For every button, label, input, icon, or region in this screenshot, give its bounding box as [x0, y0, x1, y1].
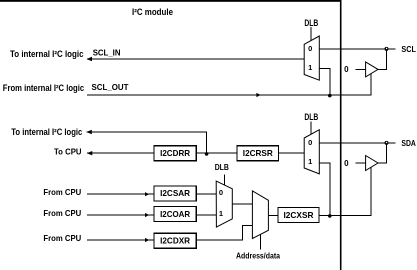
svg-text:1: 1 — [308, 157, 312, 166]
wire: buffer U2 output to SCL pin — [378, 49, 387, 69]
svg-text:0: 0 — [308, 44, 312, 53]
register I2CSAR — [154, 186, 196, 201]
wire: DLB select tick into mux U3 — [310, 122, 312, 135]
wire: I2CRSR to mux U3 output — [279, 152, 305, 154]
svg-text:Address/data: Address/data — [236, 251, 280, 260]
wire: mux U6 output to I2CXSR — [268, 214, 278, 216]
module boundary right edge — [340, 0, 342, 270]
wire: mux U5 output to mux U6 input — [232, 203, 252, 205]
wire: DLB select tick into mux U1 — [310, 27, 312, 40]
svg-text:DLB: DLB — [215, 162, 229, 172]
svg-text:0: 0 — [344, 159, 349, 168]
wire: I2COAR to mux U5 input 1 — [196, 214, 217, 216]
mux U6 (address/data mux) — [252, 191, 268, 239]
node: SCL pin terminal — [385, 47, 389, 51]
wire: CPU to I2CDXR (right arrowhead) — [87, 238, 154, 242]
register I2CDRR — [154, 146, 196, 161]
svg-text:1: 1 — [219, 209, 223, 218]
svg-text:I2CDRR: I2CDRR — [160, 148, 190, 158]
svg-text:I2CSAR: I2CSAR — [160, 188, 190, 198]
node: junction SCL_OUT / loopback — [328, 94, 332, 98]
svg-text:I2COAR: I2COAR — [160, 209, 190, 219]
svg-text:DLB: DLB — [304, 18, 318, 28]
svg-text:SDA: SDA — [401, 138, 416, 148]
node: junction SDA_IN / I2CDRR-I2CRSR — [205, 152, 209, 156]
wire: I2CDXR to mux U6 input (L bend) — [196, 226, 252, 240]
wire: buffer U4 enable from I2CXSR output — [370, 167, 372, 215]
svg-text:SCL_IN: SCL_IN — [93, 48, 121, 58]
node: SDA pin terminal — [385, 141, 389, 145]
wire: CPU to I2COAR (right arrowhead) — [87, 213, 154, 217]
wire SCL_OUT (internal logic to buffer enable, mid arrowhead) — [87, 93, 372, 97]
svg-text:To CPU: To CPU — [54, 147, 82, 157]
svg-text:I2CRSR: I2CRSR — [243, 148, 273, 158]
svg-text:To internal I²C logic: To internal I²C logic — [10, 49, 84, 59]
wire: mux U1 input 1 stub to loopback vertical — [319, 68, 330, 95]
svg-text:0: 0 — [344, 65, 349, 74]
svg-text:I2CDXR: I2CDXR — [160, 236, 190, 246]
wire: SCL pin to mux U1 input 0 — [319, 48, 395, 50]
wire: DLB select tick into mux U5 — [223, 175, 225, 186]
mux U3 (SDA DLB mux) — [304, 130, 319, 174]
wire: CPU to I2CSAR (right arrowhead) — [87, 192, 154, 196]
wire: SCL_OUT up to buffer U2 enable — [370, 73, 372, 95]
register I2CDXR — [154, 233, 196, 248]
svg-text:SCL: SCL — [401, 44, 416, 54]
register I2CRSR — [237, 146, 279, 161]
wire: I2CDRR to I2CRSR — [196, 152, 237, 154]
register I2COAR — [154, 207, 196, 222]
wire: Address/data select tick into mux U6 — [260, 234, 262, 249]
module boundary top edge — [0, 0, 341, 2]
wire: constant 0 into buffer U4 (arrowhead) — [356, 162, 368, 164]
wire: SDA pin to mux U3 input 0 — [319, 142, 395, 144]
svg-text:0: 0 — [308, 138, 312, 147]
node: junction I2CXSR output / loopback — [328, 214, 332, 218]
svg-text:I²C module: I²C module — [132, 7, 173, 17]
svg-text:From CPU: From CPU — [43, 187, 81, 197]
svg-text:SCL_OUT: SCL_OUT — [92, 82, 130, 92]
wire: mux U3 input 1 stub to loopback vertical — [319, 163, 330, 215]
svg-text:1: 1 — [308, 63, 312, 72]
wire: constant 0 into buffer U2 (arrowhead) — [356, 68, 368, 70]
wire: buffer U4 output to SDA pin — [378, 143, 387, 163]
wire: I2CDRR to CPU (left arrowhead) — [87, 151, 154, 155]
register I2CXSR — [278, 208, 319, 223]
wire SCL_IN (mux U1 output to internal logic, left arrowhead) — [87, 57, 305, 61]
wire: I2CSAR to mux U5 input 0 — [196, 193, 217, 195]
svg-text:From CPU: From CPU — [43, 208, 81, 218]
mux U1 (SCL DLB mux) — [304, 36, 319, 80]
buffer U4 (SDA output driver) — [366, 156, 378, 171]
wire SDA_IN (mux U3 output branch to internal logic, left arrowhead) — [86, 130, 206, 153]
svg-text:To internal I²C logic: To internal I²C logic — [11, 127, 82, 137]
svg-text:DLB: DLB — [304, 112, 318, 122]
wire: I2CXSR output to buffer U4 enable / loopback — [319, 214, 372, 216]
svg-text:0: 0 — [219, 188, 223, 197]
svg-text:From CPU: From CPU — [43, 233, 81, 243]
buffer U2 (SCL output driver) — [366, 62, 378, 77]
svg-text:I2CXSR: I2CXSR — [284, 210, 314, 220]
mux U5 (address DLB mux) — [216, 181, 232, 227]
svg-text:From internal I²C logic: From internal I²C logic — [3, 83, 84, 93]
